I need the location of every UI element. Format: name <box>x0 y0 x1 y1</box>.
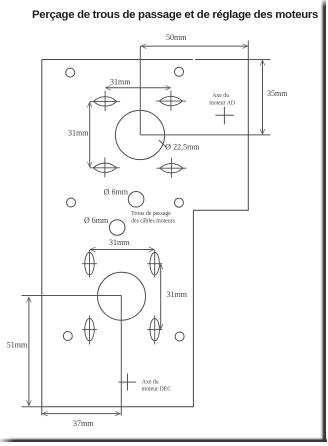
svg-text:31mm: 31mm <box>109 238 130 247</box>
svg-text:Axe du: Axe du <box>142 379 159 385</box>
svg-text:des câbles moteurs: des câbles moteurs <box>131 218 176 224</box>
svg-text:31mm: 31mm <box>110 77 131 86</box>
svg-text:31mm: 31mm <box>167 290 188 299</box>
svg-text:Trous de passage: Trous de passage <box>131 211 171 217</box>
svg-text:Ø 6mm: Ø 6mm <box>84 216 109 225</box>
svg-text:35mm: 35mm <box>267 89 288 98</box>
svg-text:moteur AD: moteur AD <box>209 101 235 107</box>
svg-text:Axe du: Axe du <box>212 93 229 99</box>
svg-text:moteur DEC: moteur DEC <box>142 387 172 393</box>
svg-text:31mm: 31mm <box>68 128 89 137</box>
svg-text:Ø 22,5mm: Ø 22,5mm <box>165 143 200 152</box>
svg-text:51mm: 51mm <box>7 341 28 350</box>
svg-text:37mm: 37mm <box>73 419 94 428</box>
svg-text:50mm: 50mm <box>166 33 187 42</box>
svg-text:Ø 6mm: Ø 6mm <box>104 187 129 196</box>
